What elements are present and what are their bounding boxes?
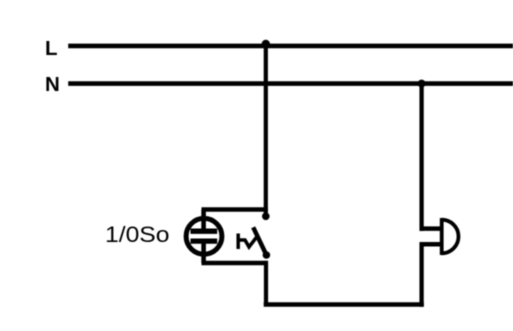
svg-text:N: N	[45, 73, 60, 96]
svg-text:L: L	[45, 37, 58, 60]
svg-text:1/0So: 1/0So	[105, 222, 170, 247]
